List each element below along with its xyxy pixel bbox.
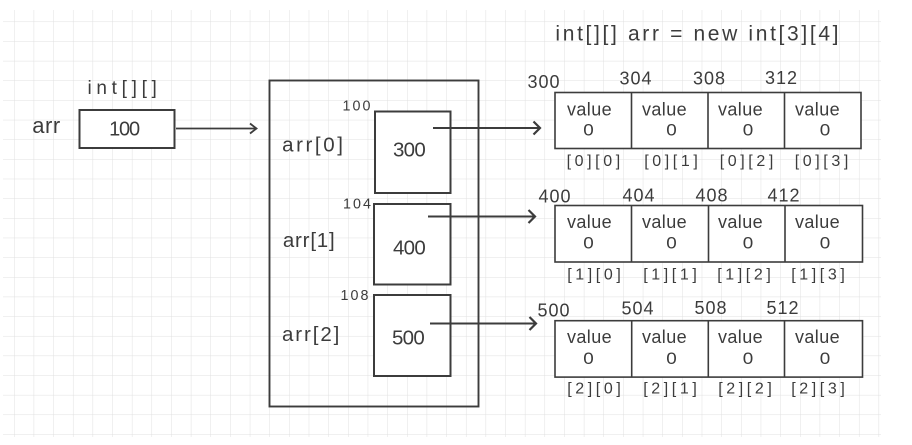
row 1 cell values	[567, 212, 840, 253]
svg-text:408: 408	[695, 186, 728, 206]
svg-text:int[][] arr = new int[3][4]: int[][] arr = new int[3][4]	[555, 23, 841, 46]
row 0 cell values	[567, 100, 840, 140]
svg-text:300: 300	[393, 139, 425, 162]
svg-text:0: 0	[743, 234, 754, 253]
outer array object box	[270, 81, 479, 407]
svg-text:412: 412	[767, 186, 800, 206]
svg-text:0: 0	[743, 121, 754, 140]
svg-text:500: 500	[392, 327, 424, 350]
value 500 in arr[2] slot	[392, 327, 424, 350]
arr[2] slot box	[374, 295, 451, 376]
label arr[0]	[282, 134, 345, 157]
svg-text:308: 308	[693, 69, 726, 89]
label arr[2]	[282, 323, 341, 346]
svg-text:500: 500	[537, 301, 570, 321]
svg-text:[0][3]: [0][3]	[795, 153, 852, 170]
row 1 array table	[555, 206, 863, 263]
svg-text:[1][1]: [1][1]	[643, 267, 700, 284]
svg-text:312: 312	[765, 68, 798, 88]
arrow from arr[0] slot to row 0 array	[433, 122, 540, 135]
svg-text:value: value	[642, 100, 687, 120]
svg-text:100: 100	[342, 99, 372, 115]
svg-text:508: 508	[694, 298, 727, 318]
svg-text:value: value	[795, 100, 840, 120]
label arr	[32, 113, 60, 138]
svg-text:[0][2]: [0][2]	[720, 153, 777, 170]
row 2 address labels 500 504 508 512	[537, 298, 799, 321]
svg-text:value: value	[718, 327, 763, 347]
svg-text:300: 300	[527, 72, 560, 92]
value 300 in arr[0] slot	[393, 139, 425, 162]
svg-text:504: 504	[621, 299, 654, 319]
row 0 address labels 300 304 308 312	[527, 68, 798, 92]
svg-text:304: 304	[619, 69, 652, 89]
svg-text:value: value	[567, 100, 612, 120]
arrow from arr[1] slot to row 1 array	[428, 210, 535, 223]
arr[0] slot box	[375, 112, 451, 194]
svg-text:value: value	[567, 212, 612, 232]
svg-text:arr[2]: arr[2]	[282, 323, 341, 346]
address label 104 for arr[1] slot	[343, 197, 373, 213]
row 1 address labels 400 404 408 412	[538, 186, 800, 207]
svg-text:value: value	[795, 212, 840, 232]
svg-text:[2][3]: [2][3]	[791, 381, 848, 398]
row 2 index labels	[567, 381, 848, 398]
svg-text:[1][0]: [1][0]	[567, 267, 624, 284]
value 100 in arr box	[109, 119, 140, 141]
title: int[][] arr = new int[3][4]	[555, 23, 841, 46]
svg-text:value: value	[718, 212, 763, 232]
svg-text:0: 0	[820, 121, 831, 140]
svg-text:0: 0	[583, 234, 594, 253]
svg-text:[1][3]: [1][3]	[791, 267, 848, 284]
arr variable box	[80, 110, 175, 148]
svg-text:int[][]: int[][]	[87, 78, 161, 99]
svg-text:404: 404	[622, 186, 655, 206]
svg-text:400: 400	[538, 187, 571, 207]
svg-text:arr[1]: arr[1]	[283, 229, 336, 252]
svg-text:value: value	[642, 327, 687, 347]
svg-text:arr[0]: arr[0]	[282, 134, 345, 157]
svg-text:value: value	[718, 100, 763, 120]
row 2 cell values	[567, 327, 840, 368]
row 0 index labels	[567, 153, 852, 170]
row 2 array table	[555, 321, 863, 377]
svg-text:0: 0	[666, 234, 677, 253]
svg-text:[0][1]: [0][1]	[644, 153, 701, 170]
label arr[1]	[283, 229, 336, 252]
svg-text:512: 512	[766, 298, 799, 318]
arr[1] slot box	[374, 204, 451, 285]
svg-text:0: 0	[820, 349, 831, 368]
svg-text:104: 104	[343, 197, 373, 213]
svg-text:[1][2]: [1][2]	[717, 267, 774, 284]
svg-text:value: value	[795, 327, 840, 347]
arrow from arr box to outer array object	[176, 124, 257, 134]
arrow from arr[2] slot to row 2 array	[430, 317, 536, 330]
svg-text:0: 0	[583, 349, 594, 368]
svg-text:[0][0]: [0][0]	[567, 153, 624, 170]
svg-text:[2][1]: [2][1]	[643, 381, 700, 398]
value 400 in arr[1] slot	[393, 237, 425, 260]
svg-text:[2][0]: [2][0]	[567, 381, 624, 398]
svg-text:value: value	[567, 327, 612, 347]
svg-text:400: 400	[393, 237, 425, 260]
svg-text:108: 108	[340, 288, 370, 304]
label int[][] above arr variable box	[87, 78, 161, 99]
svg-text:100: 100	[109, 119, 140, 141]
svg-text:0: 0	[666, 121, 677, 140]
row 1 index labels	[567, 267, 848, 284]
svg-text:0: 0	[820, 234, 831, 253]
svg-text:value: value	[642, 212, 687, 232]
address label 108 for arr[2] slot	[340, 288, 370, 304]
svg-text:0: 0	[666, 349, 677, 368]
row 0 array table	[555, 93, 861, 149]
svg-text:arr: arr	[32, 113, 60, 138]
address label 100 for arr[0] slot	[342, 99, 372, 115]
svg-text:[2][2]: [2][2]	[718, 381, 775, 398]
svg-text:0: 0	[583, 121, 594, 140]
svg-text:0: 0	[743, 349, 754, 368]
